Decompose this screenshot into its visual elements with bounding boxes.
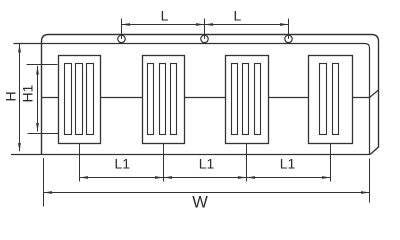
arrowhead L1 seg2 left — [164, 176, 173, 179]
vent rectangle 3 slot 3 — [255, 64, 261, 135]
L dimension line (top, both segments) — [122, 24, 289, 26]
H1 bottom extension line — [28, 133, 59, 135]
arrowhead W right — [361, 191, 370, 194]
L dimension extension line 3 — [288, 19, 290, 39]
arrowhead L1 seg3 right — [322, 176, 331, 179]
L1 extension line under rect4 — [330, 144, 332, 182]
W right extension line — [369, 159, 371, 203]
svg-text:L: L — [161, 8, 169, 24]
W left extension line — [43, 158, 45, 207]
arrowhead H top — [18, 44, 21, 53]
mid connecting line segment between rect2 and rect3 — [185, 97, 226, 99]
H1 top extension line — [27, 64, 58, 66]
mid connecting line segment left of rect1 — [42, 97, 59, 99]
svg-text:H: H — [3, 91, 19, 101]
vent rectangle 1 outline — [59, 56, 101, 144]
W dimension line — [44, 192, 370, 194]
vent rectangle 4 slot 2 — [333, 64, 339, 135]
arrowhead L1 seg1 right — [155, 176, 164, 179]
svg-text:L: L — [234, 8, 242, 24]
vent rectangle 1 slot 3 — [87, 64, 94, 135]
mounting hole circle 3 — [285, 35, 292, 42]
mid connecting line segment right of rect4 — [353, 97, 370, 99]
vent rectangle 4 slot 1 — [320, 64, 327, 135]
mounting hole circle 1 — [118, 35, 125, 42]
vent rectangle 1 slot 2 — [76, 64, 83, 135]
arrowhead L1 seg1 left — [80, 176, 89, 179]
H dimension line — [19, 44, 21, 151]
svg-text:H1: H1 — [20, 84, 36, 102]
svg-text:W: W — [192, 194, 208, 212]
mid connecting line segment between rect1 and rect2 — [101, 97, 143, 99]
svg-text:L1: L1 — [280, 156, 296, 172]
H1 dimension line — [37, 66, 39, 132]
arrowhead L seg1 left — [122, 23, 131, 26]
L1 extension line under rect3 — [246, 144, 248, 182]
arrowhead L1 seg2 right — [238, 176, 247, 179]
vent rectangle 2 slot 3 — [171, 64, 177, 135]
vent rectangle 3 slot 2 — [243, 64, 249, 135]
mounting hole circle 2 — [201, 35, 208, 42]
bevel diagonal on right side face — [370, 90, 379, 98]
vent rectangle 4 outline — [309, 56, 353, 144]
L dimension extension line 2 — [204, 19, 206, 39]
arrowhead W left — [44, 191, 53, 194]
body outer outline — [42, 35, 379, 155]
arrowhead L seg1 right — [196, 23, 205, 26]
svg-text:L1: L1 — [115, 156, 131, 172]
L1 extension line under rect2 — [163, 144, 165, 182]
arrowhead H bottom — [18, 143, 21, 152]
vent rectangle 3 outline — [226, 56, 269, 144]
arrowhead L seg2 left — [205, 23, 214, 26]
arrowhead L1 seg3 left — [247, 176, 256, 179]
arrowhead L seg2 right — [280, 23, 289, 26]
vent rectangle 2 slot 1 — [148, 64, 154, 135]
vent rectangle 2 outline — [143, 56, 185, 144]
body inner top edge with H top extension line and inner right edge — [14, 44, 370, 155]
vent rectangle 3 slot 1 — [232, 64, 238, 135]
L1 dimension line (all three segments) — [80, 177, 331, 179]
L dimension extension line 1 — [121, 19, 123, 39]
L1 extension line under rect1 — [79, 144, 81, 182]
body bottom edge with H bottom extension line — [11, 154, 370, 156]
mid connecting line segment between rect3 and rect4 — [269, 97, 309, 99]
arrowhead H1 top — [36, 66, 39, 75]
vent rectangle 1 slot 1 — [65, 64, 72, 135]
arrowhead H1 bottom — [36, 123, 39, 132]
vent rectangle 2 slot 2 — [160, 64, 166, 135]
svg-text:L1: L1 — [199, 156, 215, 172]
